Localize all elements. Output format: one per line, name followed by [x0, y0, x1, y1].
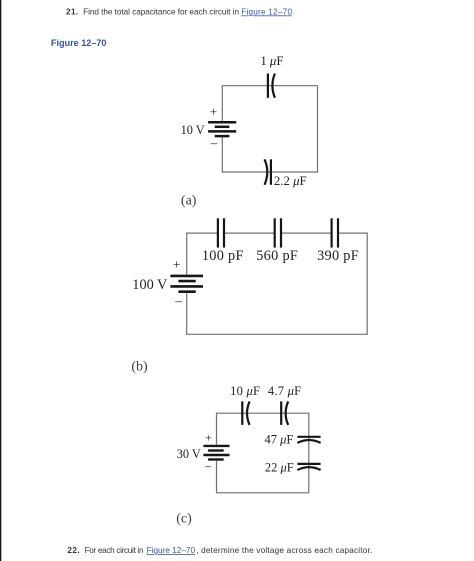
svg-text:2.2 μF: 2.2 μF	[274, 174, 307, 188]
capacitor C7 4.7 uF	[281, 401, 288, 425]
svg-text:100 V: 100 V	[132, 277, 168, 293]
svg-text:22 μF: 22 μF	[265, 461, 294, 475]
svg-text:.: .	[293, 7, 295, 16]
svg-text:Figure 12–70: Figure 12–70	[147, 546, 196, 555]
battery BT3 30 V	[203, 446, 229, 460]
svg-text:–: –	[210, 135, 218, 150]
svg-text:+: +	[173, 257, 180, 272]
capacitor C1 1 uF	[268, 74, 275, 98]
capacitor C8 47 uF	[297, 437, 320, 443]
svg-text:10 μF: 10 μF	[230, 384, 260, 398]
svg-text:–: –	[174, 293, 182, 308]
svg-text:Find the total capacitance for: Find the total capacitance for each circ…	[83, 7, 239, 16]
capacitor C2 2.2 uF	[265, 159, 271, 185]
svg-text:Figure 12–70: Figure 12–70	[241, 7, 292, 16]
svg-text:560 pF: 560 pF	[256, 248, 298, 264]
svg-text:47 μF: 47 μF	[264, 433, 293, 447]
svg-text:(c): (c)	[176, 512, 192, 527]
svg-text:390 pF: 390 pF	[317, 248, 359, 264]
capacitor C3 100 pF	[218, 218, 224, 247]
wire loop (b)	[187, 233, 368, 334]
svg-text:100 pF: 100 pF	[202, 248, 244, 264]
capacitor C6 10 uF	[242, 401, 249, 425]
problem 22 text	[67, 546, 372, 555]
svg-text:(b): (b)	[131, 360, 148, 375]
battery BT2 100 V	[170, 276, 203, 292]
wire loop (c)	[217, 413, 309, 493]
capacitor C4 560 pF	[275, 218, 281, 247]
svg-text:+: +	[210, 104, 217, 119]
problem 21 text	[66, 7, 295, 16]
capacitor C5 390 pF	[332, 218, 338, 247]
svg-text:10 V: 10 V	[181, 123, 205, 137]
svg-text:30 V: 30 V	[177, 447, 201, 461]
svg-text:Figure 12–70: Figure 12–70	[51, 38, 107, 48]
svg-text:+: +	[205, 430, 212, 444]
capacitor C9 22 uF	[297, 464, 320, 470]
svg-text:(a): (a)	[181, 193, 197, 208]
svg-text:For each circuit in: For each circuit in	[85, 546, 144, 555]
wire loop (a)	[222, 86, 317, 172]
svg-text:, determine the voltage across: , determine the voltage across each capa…	[196, 546, 372, 555]
svg-text:21.: 21.	[66, 7, 78, 16]
battery BT1 10 V	[208, 122, 236, 136]
svg-text:22.: 22.	[67, 546, 79, 555]
svg-text:1 μF: 1 μF	[260, 54, 283, 68]
svg-text:4.7 μF: 4.7 μF	[268, 384, 301, 398]
svg-text:–: –	[204, 459, 212, 473]
